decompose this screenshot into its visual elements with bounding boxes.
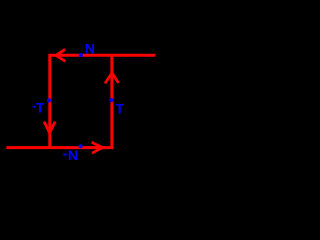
wire: left vertical + top horizontal line [50, 55, 156, 149]
svg-text:T: T [115, 100, 124, 116]
label -N (minus + N) [63, 154, 66, 156]
svg-text:T: T [36, 100, 45, 116]
arrow right (on bottom line) [92, 142, 103, 153]
node dot -T [47, 98, 51, 102]
label -T (minus + T) [33, 106, 36, 108]
node dot T [109, 98, 113, 102]
node dot N [79, 53, 83, 57]
svg-text:N: N [85, 40, 95, 56]
arrow down (on left vertical) [44, 122, 55, 133]
svg-text:N: N [68, 147, 78, 163]
arrow left (on top line) [56, 49, 66, 61]
wire: bottom horizontal + right vertical line [6, 55, 112, 147]
arrow up (on right vertical) [105, 73, 119, 84]
node dot -N [79, 144, 83, 148]
